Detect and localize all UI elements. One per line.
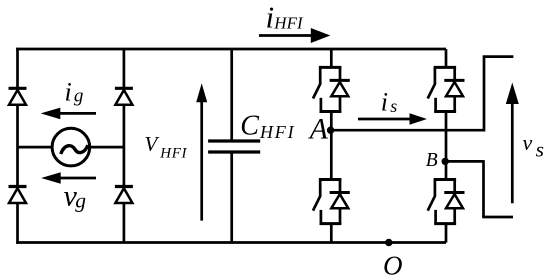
diode D4 (115, 187, 133, 204)
wire S4 to bottom rail (445, 224, 448, 243)
switch S2 (428, 67, 465, 111)
svg-text:V: V (145, 132, 160, 156)
label i_HFI (266, 0, 304, 35)
switch S4 (428, 180, 465, 224)
diode D1 (9, 88, 27, 105)
label v_g (64, 180, 87, 213)
svg-text:HFI: HFI (273, 13, 304, 32)
label C_HFI (240, 110, 295, 141)
wire node A to output (331, 129, 484, 132)
svg-text:i: i (65, 78, 72, 107)
arrow vg (41, 172, 96, 184)
wire capacitor branch bottom (230, 152, 233, 243)
label i_g (65, 78, 84, 107)
arrow i_HFI (259, 28, 330, 43)
wire top rail (16, 48, 446, 51)
diode D2 (115, 88, 133, 105)
wire node A to S3 (330, 130, 333, 179)
wire bridge middle (18, 146, 124, 149)
svg-text:g: g (74, 86, 84, 107)
diode D3 (9, 187, 27, 204)
label V_HFI (145, 132, 188, 161)
wire S3 to bottom rail (330, 224, 333, 243)
node O (385, 239, 392, 246)
svg-text:i: i (266, 0, 275, 35)
svg-text:g: g (75, 189, 86, 213)
wire output bottom terminal (482, 216, 513, 219)
wire H-bridge right leg top stub (445, 49, 448, 67)
svg-text:HFI: HFI (259, 122, 295, 142)
svg-text:i: i (381, 88, 388, 117)
AC source vg (52, 128, 90, 166)
wire second bridge leg (123, 49, 126, 243)
wire node B to output (446, 160, 484, 163)
svg-text:s: s (390, 96, 397, 116)
svg-text:C: C (240, 110, 259, 141)
node A (327, 127, 334, 134)
svg-text:HFI: HFI (159, 146, 187, 162)
wire capacitor branch top (230, 49, 233, 141)
switch S1 (313, 67, 350, 111)
svg-text:O: O (383, 250, 403, 280)
label v_s (523, 130, 544, 161)
arrow ig (41, 108, 96, 120)
wire output lower vertical (482, 160, 485, 217)
switch S3 (313, 180, 350, 224)
svg-text:B: B (426, 150, 438, 171)
svg-text:s: s (536, 138, 544, 162)
wire H-bridge left leg top stub (330, 49, 333, 67)
wire node B to S4 (445, 161, 448, 179)
wire bottom rail (16, 241, 446, 244)
label i_s (381, 88, 398, 117)
wire output top terminal (483, 55, 514, 58)
arrow i_s (358, 113, 427, 124)
svg-text:v: v (523, 130, 533, 155)
wire left bridge leg (16, 48, 19, 244)
arrow V_HFI (196, 83, 207, 220)
wire S2 to node B (445, 112, 448, 162)
capacitor C_HFI plates (208, 141, 260, 152)
wire S1 to node A (330, 112, 333, 131)
svg-text:A: A (308, 114, 329, 146)
wire output upper vertical (483, 57, 486, 132)
arrow v_s (506, 83, 519, 204)
node B (442, 158, 449, 165)
